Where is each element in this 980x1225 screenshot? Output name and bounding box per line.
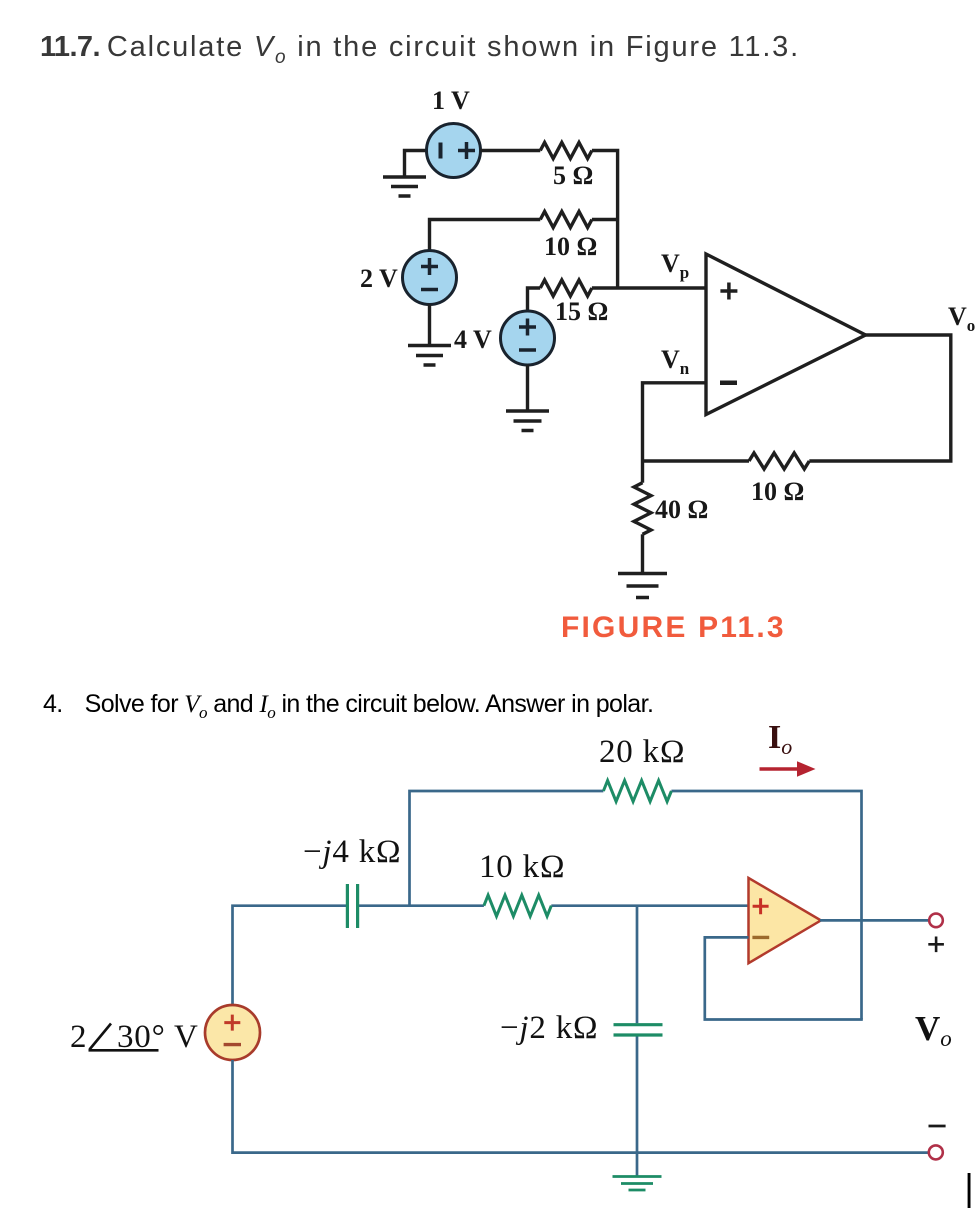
resistor 10 ohm feedback <box>749 453 809 469</box>
wire bottom row <box>233 1060 929 1153</box>
wire <box>592 218 618 221</box>
ground <box>408 346 451 366</box>
wire <box>405 151 428 178</box>
ground green <box>613 1177 662 1191</box>
terminal upper <box>929 914 943 928</box>
wire <box>430 220 541 251</box>
svg-text:10 kΩ: 10 kΩ <box>479 849 565 885</box>
wire ground stub <box>636 1153 639 1177</box>
op-amp U2 <box>749 878 821 963</box>
voltage source 4 V <box>501 311 555 365</box>
svg-text:Vn: Vn <box>661 345 690 378</box>
wire node bus <box>592 151 618 289</box>
capacitor -j4 kOhm <box>347 884 357 928</box>
svg-text:Vp: Vp <box>661 249 689 282</box>
wire cap branch <box>636 906 639 1153</box>
svg-text:30° V: 30° V <box>117 1019 199 1055</box>
svg-text:−j2 kΩ: −j2 kΩ <box>500 1010 598 1046</box>
svg-text:11.7.Calculate Vo in the circu: 11.7.Calculate Vo in the circuit shown i… <box>40 31 800 68</box>
svg-text:FIGURE P11.3: FIGURE P11.3 <box>561 611 786 644</box>
current arrow Io <box>760 767 799 771</box>
svg-text:20 kΩ: 20 kΩ <box>599 734 685 770</box>
ground <box>618 574 667 598</box>
wire <box>643 459 750 462</box>
wire node Vp <box>592 286 706 289</box>
resistor 5 ohm <box>540 143 592 159</box>
label minus output <box>929 1125 946 1128</box>
svg-text:15 Ω: 15 Ω <box>555 297 608 326</box>
wire node Vn <box>643 383 707 461</box>
ground <box>383 177 426 196</box>
svg-text:10 Ω: 10 Ω <box>751 477 804 506</box>
label + output <box>928 937 944 953</box>
wire output Vo <box>809 335 951 461</box>
wire <box>526 365 529 411</box>
wire output <box>820 919 929 922</box>
resistor 40 ohm <box>641 461 644 483</box>
svg-text:Io: Io <box>768 719 792 759</box>
svg-text:4 V: 4 V <box>454 325 492 354</box>
svg-text:5 Ω: 5 Ω <box>553 161 593 190</box>
capacitor -j2 kOhm <box>614 1025 663 1035</box>
svg-text:40 Ω: 40 Ω <box>655 495 708 524</box>
wire main row <box>233 906 749 1006</box>
svg-text:2 V: 2 V <box>360 264 398 293</box>
wire <box>528 288 541 311</box>
wire inverting loop <box>705 937 863 1019</box>
svg-text:Vo: Vo <box>915 1009 952 1051</box>
op-amp U1 <box>706 254 866 415</box>
ground <box>506 411 549 431</box>
svg-text:2: 2 <box>70 1019 87 1055</box>
terminal lower <box>929 1145 943 1159</box>
resistor 15 ohm <box>540 280 592 296</box>
svg-text:1 V: 1 V <box>432 86 470 115</box>
wire <box>481 149 541 152</box>
cursor bar artifact <box>968 1173 971 1208</box>
resistor 10 ohm <box>540 212 592 228</box>
wire <box>641 534 644 573</box>
wire top feedback <box>410 791 862 1020</box>
svg-text:−j4 kΩ: −j4 kΩ <box>303 834 401 870</box>
voltage source 2 V <box>403 251 457 305</box>
voltage source 1 V <box>427 124 481 178</box>
svg-text:4.Solve for Vo and Io in the c: 4.Solve for Vo and Io in the circuit bel… <box>43 690 653 722</box>
voltage source 2 angle 30 V <box>205 1005 260 1060</box>
resistor 20 kOhm <box>603 781 671 802</box>
svg-text:10 Ω: 10 Ω <box>544 232 597 261</box>
svg-text:Vo: Vo <box>948 302 975 335</box>
wire <box>428 305 431 346</box>
resistor 10 kOhm <box>484 895 551 916</box>
